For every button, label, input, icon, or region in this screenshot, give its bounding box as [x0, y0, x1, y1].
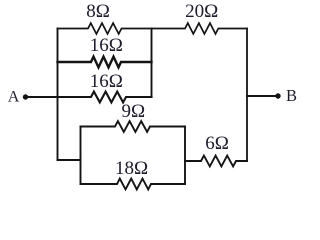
wire + resistor 18 ohm (lower bottom branch)	[81, 179, 186, 190]
wire from A + resistor 16 ohm second (bottom branch of upper box)	[27, 92, 152, 103]
svg-text:18Ω: 18Ω	[115, 158, 148, 179]
wire middle vertical bus	[151, 29, 153, 98]
wire + resistor 8 ohm (top left branch)	[58, 23, 153, 34]
svg-text:B: B	[286, 86, 297, 105]
wire + resistor 16 ohm first (middle branch)	[58, 57, 152, 68]
svg-text:A: A	[8, 89, 20, 106]
svg-text:8Ω: 8Ω	[86, 1, 110, 22]
wire lower box left edge	[80, 127, 82, 185]
wire B tap	[247, 95, 275, 97]
svg-text:16Ω: 16Ω	[90, 71, 123, 92]
wire + resistor 20 ohm (top right branch)	[152, 23, 247, 34]
svg-text:20Ω: 20Ω	[185, 1, 218, 22]
wire right vertical	[246, 29, 248, 162]
node A terminal dot	[23, 94, 28, 99]
wire lower box right edge	[184, 127, 186, 185]
wire + resistor 9 ohm (lower top branch)	[81, 121, 186, 132]
wire + resistor 6 ohm	[185, 156, 247, 167]
wire left vertical bus	[57, 29, 59, 161]
node B terminal dot	[275, 93, 280, 98]
wire lower-left stub	[58, 159, 81, 161]
svg-text:6Ω: 6Ω	[205, 133, 229, 154]
svg-text:16Ω: 16Ω	[90, 35, 123, 56]
svg-text:9Ω: 9Ω	[121, 101, 145, 122]
